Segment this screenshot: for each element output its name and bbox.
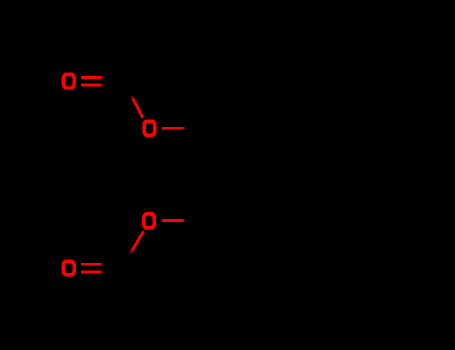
bottom acetate group: ester oxygen atom O3 (letter O drawn as bold ring) [142, 212, 156, 230]
top acetate: bond O2 to CH2, red half fading toward carbon [162, 127, 186, 130]
bottom acetate: invisible carbon half of O3-C2 bond [124, 254, 131, 267]
top acetate: invisible carbon-side remainder of C1=O1 double bond [104, 76, 122, 79]
top acetate: C1=O1 double bond, lower line (red half, fades toward carbon) [81, 84, 104, 87]
top acetate: invisible carbon half of C1-O2 bond [125, 83, 131, 96]
bottom acetate: C2=O4 double bond, lower line (red half, fades toward carbon) [81, 270, 104, 273]
bottom acetate: bond O3 to CH2, red half fading toward carbon [162, 219, 186, 222]
top acetate group: carbonyl oxygen atom O1 (letter O drawn as bold ring) [62, 72, 76, 89]
top acetate: bond from ester oxygen O2 up toward carbonyl C1 (red half, fades) [131, 95, 142, 117]
top acetate: methyl bond C1-CH3 (invisible dark) [125, 44, 134, 78]
bottom acetate: carbonyl oxygen atom O4 (letter O drawn as bold ring) [62, 260, 76, 277]
bottom acetate: invisible carbon half of O3-CH2 bond [186, 219, 201, 222]
top acetate: ester oxygen atom O2 (letter O drawn as bold ring) [142, 119, 156, 137]
bottom acetate: invisible carbon-side remainder of C2=O4 double bond [104, 263, 121, 266]
top acetate: C1=O1 double bond, upper line (red half, fades toward carbon) [81, 76, 104, 79]
bottom acetate: methyl bond C2-CH3 (invisible dark) [124, 272, 133, 307]
bottom acetate: bond from ester oxygen O3 down toward carbonyl C2 (red half, fades) [130, 231, 144, 254]
bottom acetate: C2=O4 double bond, upper line (red half, fades toward carbon) [81, 263, 104, 266]
top acetate: invisible carbon half of O2-CH2 bond [186, 127, 201, 130]
